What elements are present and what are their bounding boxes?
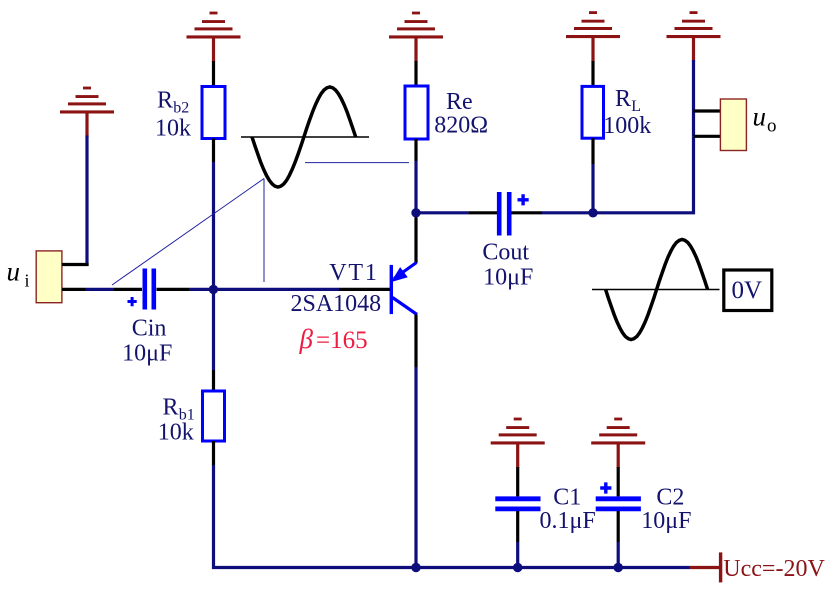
svg-text:0V: 0V — [732, 277, 763, 304]
supply terminal bar — [719, 552, 722, 582]
label Rb1 — [163, 395, 195, 424]
svg-text:2SA1048: 2SA1048 — [291, 291, 382, 317]
wire Cout to uo corner — [542, 136, 694, 213]
svg-text:Ucc=-20V: Ucc=-20V — [723, 556, 825, 582]
output terminal uo box — [720, 99, 746, 151]
wire pin C1 bottom — [516, 511, 519, 542]
svg-text:Cout: Cout — [482, 239, 529, 265]
label beta=165 — [299, 324, 368, 354]
wire emitter pin — [414, 213, 417, 263]
wire pin RL bottom — [591, 138, 594, 164]
svg-text:VT1: VT1 — [329, 260, 378, 286]
svg-text:10k: 10k — [158, 419, 194, 445]
svg-text:0.1μF: 0.1μF — [540, 508, 596, 534]
wire node A down to Rb1 — [212, 289, 215, 370]
wire pin C1 top — [516, 467, 519, 496]
svg-text:100k: 100k — [603, 113, 651, 139]
wire Rb2 to node A — [212, 162, 215, 289]
svg-text:u: u — [753, 102, 767, 132]
waveform output sine curve — [606, 240, 708, 340]
wire — [85, 136, 88, 267]
svg-text:i: i — [25, 271, 30, 291]
svg-text:820Ω: 820Ω — [434, 112, 488, 138]
wire uo bottom pin — [694, 135, 721, 138]
annotation line diagonal — [112, 179, 264, 286]
svg-text:=165: =165 — [316, 327, 368, 354]
label ui — [7, 257, 30, 291]
wire C2 to rail — [617, 542, 620, 568]
wire pin Rb1 bottom — [212, 441, 215, 465]
wire node B to Cout — [416, 211, 468, 214]
wire ui top pin — [62, 263, 89, 266]
wire RL to node C — [591, 164, 594, 213]
resistor Rb2 — [202, 87, 225, 139]
capacitor C1 — [495, 499, 540, 509]
svg-text:10μF: 10μF — [483, 264, 533, 290]
capacitor C2 — [596, 499, 641, 509]
svg-text:10μF: 10μF — [641, 508, 691, 534]
wire pin Cin right — [157, 288, 190, 291]
wire pin C2 top — [617, 467, 620, 496]
transistor VT1 — [390, 263, 417, 315]
wire pin Cout right — [511, 211, 542, 214]
wire C1 to rail — [516, 542, 519, 568]
ground GND3 (Re top) — [389, 12, 443, 62]
wire collector pin — [414, 315, 417, 368]
wire pin Cout left — [468, 211, 497, 214]
wire Re to node B — [414, 161, 417, 213]
svg-text:R: R — [163, 395, 179, 421]
capacitor C2 ground GND7 — [591, 418, 645, 468]
svg-text:C2: C2 — [656, 485, 684, 511]
resistor Re — [405, 86, 428, 139]
wire pin RL top — [591, 61, 594, 87]
svg-text:10μF: 10μF — [122, 340, 172, 366]
wire collector to rail — [414, 367, 417, 568]
wire ground to uo — [692, 60, 695, 136]
svg-text:R: R — [157, 88, 173, 114]
resistor RL — [582, 86, 604, 138]
svg-text:o: o — [767, 116, 777, 137]
ground GND5 (output) — [667, 11, 721, 61]
wire pin C2 bottom — [617, 511, 620, 542]
capacitor C1 ground GND6 — [491, 418, 545, 468]
wire pin Rb2 top — [212, 61, 215, 87]
waveform input sine axis — [241, 136, 369, 138]
resistor Rb1 — [203, 391, 225, 441]
svg-text:β: β — [299, 324, 314, 354]
wire pin Rb1 top — [212, 370, 215, 392]
wire pin Re bottom — [414, 139, 417, 161]
node A junction dot — [209, 285, 218, 294]
svg-text:b2: b2 — [173, 100, 189, 117]
junction dot rail-C2 — [614, 563, 623, 572]
ground GND2 (Rb2 top) — [187, 12, 241, 62]
wire uo top pin — [694, 109, 721, 112]
wire Cin to node A — [189, 288, 339, 291]
annotation line vertical — [263, 179, 265, 283]
wire pin Re top — [414, 61, 417, 86]
wire Rb1 to rail — [214, 465, 417, 568]
wire rail red segment — [690, 566, 720, 569]
junction dot rail-collector — [411, 563, 420, 572]
svg-text:C1: C1 — [553, 485, 581, 511]
wire ui bottom pin — [62, 288, 86, 291]
plus sign Cin — [128, 297, 137, 306]
annotation line horizontal — [305, 162, 409, 164]
wire pin Cin left — [114, 288, 142, 291]
svg-text:Cin: Cin — [132, 315, 167, 341]
plus sign C2 — [600, 482, 611, 493]
plus sign Cout — [518, 194, 529, 205]
capacitor Cin — [145, 269, 154, 310]
wire pin Rb2 bottom — [212, 139, 215, 163]
label uo — [753, 102, 777, 137]
capacitor Cout — [499, 192, 509, 236]
wire to Cin — [86, 288, 115, 291]
0V reference box — [724, 270, 772, 311]
svg-text:Re: Re — [446, 89, 473, 115]
label Rb2 — [157, 88, 189, 117]
node B junction dot — [411, 208, 420, 217]
wire supply rail — [416, 566, 690, 569]
wire base pin — [339, 288, 390, 291]
waveform input sine curve — [252, 87, 356, 187]
waveform output sine axis — [592, 289, 720, 291]
svg-text:u: u — [7, 257, 21, 287]
svg-text:R: R — [615, 86, 631, 112]
node C junction dot (RL) — [588, 208, 597, 217]
ground GND4 (RL top) — [566, 11, 620, 61]
svg-text:10k: 10k — [155, 115, 191, 141]
input terminal ui box — [36, 251, 62, 303]
label RL — [615, 86, 641, 115]
ground GND1 (input source) — [60, 87, 114, 137]
junction dot rail-C1 — [513, 563, 522, 572]
